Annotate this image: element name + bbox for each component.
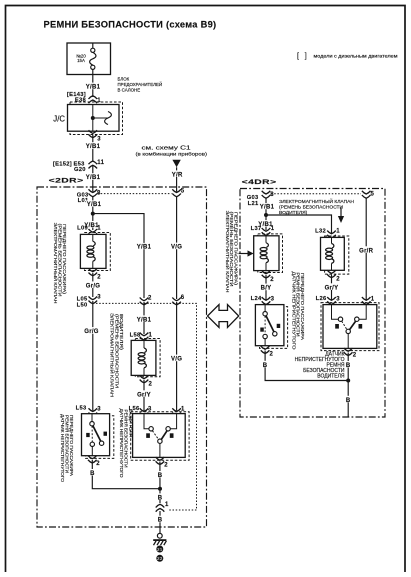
svg-text:L37: L37 <box>251 226 262 232</box>
svg-text:ПРЕДОХРАНИТЕЛЕЙ: ПРЕДОХРАНИТЕЛЕЙ <box>118 82 163 87</box>
svg-text:L58: L58 <box>130 332 141 338</box>
svg-text:3: 3 <box>97 137 101 143</box>
svg-text:V/G: V/G <box>171 245 182 251</box>
svg-text:2: 2 <box>336 276 340 282</box>
svg-text:1: 1 <box>149 332 153 338</box>
svg-text:ВОДИТЕЛЯ: ВОДИТЕЛЯ <box>317 373 345 379</box>
svg-text:РЕМНИ БЕЗОПАСНОСТИ (схема B9): РЕМНИ БЕЗОПАСНОСТИ (схема B9) <box>44 20 217 30</box>
svg-text:<2DR>: <2DR> <box>49 178 84 185</box>
svg-text:(в комбинации приборов): (в комбинации приборов) <box>136 151 208 157</box>
svg-text:B/Y: B/Y <box>261 286 272 292</box>
svg-text:15A: 15A <box>77 58 85 63</box>
connector G03 pin 5 (4DR) <box>362 191 371 198</box>
svg-text:[E152]: [E152] <box>53 161 72 167</box>
svg-text:Gr/G: Gr/G <box>86 283 101 289</box>
switch L26 pin 2 <box>344 348 353 355</box>
switch L24 pin 2 <box>261 346 270 353</box>
svg-text:B: B <box>158 495 163 501</box>
connector G03 pin 5 <box>172 189 181 196</box>
svg-text:РЕМНЯ БЕЗОПАСНОСТИ: РЕМНЯ БЕЗОПАСНОСТИ <box>124 410 129 468</box>
svg-text:ПЕРЕДНЕГО ПАССАЖИРА): ПЕРЕДНЕГО ПАССАЖИРА) <box>233 212 238 286</box>
svg-text:Y/B1: Y/B1 <box>86 175 101 181</box>
svg-text:3: 3 <box>97 406 101 412</box>
svg-text:2: 2 <box>97 275 101 281</box>
wire B L56 to ground node <box>159 462 161 504</box>
svg-text:ВОДИТЕЛЯ): ВОДИТЕЛЯ) <box>119 314 124 351</box>
svg-text:J/C: J/C <box>53 115 65 124</box>
wire Y/B1 G03 to node B <box>265 199 267 216</box>
L50 connector dashed outline <box>96 303 197 510</box>
G03 connector dashed link (4DR) <box>271 193 361 195</box>
svg-text:Gr/R: Gr/R <box>359 248 374 254</box>
4DR box <box>240 189 385 418</box>
wire B L53 to ground node <box>92 460 160 489</box>
svg-text:В САЛОНЕ: В САЛОНЕ <box>118 87 141 92</box>
svg-text:8: 8 <box>270 192 274 198</box>
svg-text:2: 2 <box>149 382 153 388</box>
svg-text:Y/B1: Y/B1 <box>137 317 152 323</box>
L56 label vertical text <box>119 409 133 479</box>
svg-text:БЛОК: БЛОК <box>118 77 130 82</box>
svg-text:Y/B1: Y/B1 <box>260 205 275 211</box>
svg-text:V/G: V/G <box>171 357 182 363</box>
switch L24 (passenger belt switch 4DR) <box>255 305 287 349</box>
wire Y/B1 J/C to E53 <box>92 135 94 162</box>
svg-text:(РЕМЕНЬ БЕЗОПАСНОСТИ: (РЕМЕНЬ БЕЗОПАСНОСТИ <box>58 224 63 297</box>
connector J/C pin 3 <box>89 130 98 137</box>
svg-text:3: 3 <box>97 294 101 300</box>
wire Y/B1 to L58 <box>143 302 145 334</box>
2DR/4DR equivalence double arrow <box>208 305 239 328</box>
fuse F20 box <box>67 43 111 75</box>
wire B/Y L37 to L24 <box>265 275 267 300</box>
svg-text:1: 1 <box>97 226 101 232</box>
L53 label vertical text <box>60 414 74 483</box>
node A junction <box>91 212 95 216</box>
wire B L26 to node C <box>347 353 349 381</box>
switch L53 (passenger belt switch) <box>82 414 114 459</box>
svg-text:L24: L24 <box>251 296 262 302</box>
svg-text:3: 3 <box>336 296 340 302</box>
wire Y/B1 fuse to E38 <box>92 75 94 98</box>
from C1 arrow <box>172 160 180 168</box>
svg-text:22: 22 <box>157 556 163 561</box>
switch L56 (driver belt switch) <box>131 412 189 461</box>
svg-text:B: B <box>158 473 163 479</box>
svg-text:5: 5 <box>181 189 185 195</box>
wire B L24 to node C <box>265 351 348 381</box>
svg-text:модели с дизельным двигателем: модели с дизельным двигателем <box>314 53 398 58</box>
svg-text:(РЕМЕНЬ БЕЗОПАСНОСТИ: (РЕМЕНЬ БЕЗОПАСНОСТИ <box>114 314 119 388</box>
svg-text:L21: L21 <box>248 201 259 207</box>
2DR box <box>37 187 207 527</box>
wire branch node A to middle column <box>93 214 144 298</box>
switch L56 pin 2 <box>156 457 165 464</box>
svg-text:3: 3 <box>271 296 275 302</box>
svg-text:ЭЛЕКТРОМАГНИТНЫЙ КЛАПАН: ЭЛЕКТРОМАГНИТНЫЙ КЛАПАН <box>53 223 58 304</box>
svg-text:<4DR>: <4DR> <box>242 179 277 186</box>
svg-text:(РЕМЕНЬ БЕЗОПАСНОСТИ: (РЕМЕНЬ БЕЗОПАСНОСТИ <box>279 204 344 210</box>
L26 label text block <box>295 351 345 379</box>
note arrow to L32 <box>338 208 344 224</box>
switch L53 pin 2 <box>88 456 97 463</box>
valve L37 (passenger belt solenoid 4DR) <box>254 234 283 273</box>
svg-text:Gr/G: Gr/G <box>84 329 99 335</box>
body ground 21/22 <box>153 533 166 545</box>
svg-text:B: B <box>346 398 351 404</box>
connector L05 pin 3 <box>89 296 98 303</box>
valve L09 pin 2 <box>89 268 98 275</box>
svg-text:L32: L32 <box>315 229 326 235</box>
svg-text:Y/R: Y/R <box>172 172 183 178</box>
svg-text:11: 11 <box>97 160 104 166</box>
valve L58 pin 2 <box>140 375 149 382</box>
svg-text:6: 6 <box>181 295 185 301</box>
valve L32 (driver belt solenoid 4DR) <box>321 236 349 274</box>
svg-text:РЕМНЯ БЕЗОПАСНОСТИ: РЕМНЯ БЕЗОПАСНОСТИ <box>65 415 70 473</box>
valve L58 (driver belt solenoid) <box>131 339 160 377</box>
svg-text:ДАТЧИК НЕПРИСТЕГНУТОГО: ДАТЧИК НЕПРИСТЕГНУТОГО <box>60 414 65 483</box>
wire Y/R <box>176 167 178 191</box>
connector L50 pin 6 <box>172 298 181 305</box>
wire Y/B1 G03 to node A <box>92 197 94 214</box>
valve L09 (passenger belt solenoid) <box>80 233 110 271</box>
svg-text:ВОДИТЕЛЯ: ВОДИТЕЛЯ <box>128 410 133 438</box>
L09 label vertical text <box>53 223 67 304</box>
svg-text:ПЕРЕДНЕГО ПАССАЖИРА: ПЕРЕДНЕГО ПАССАЖИРА <box>69 415 74 476</box>
svg-text:E38: E38 <box>75 98 87 104</box>
wire Gr/G L09 to L05 <box>92 273 94 297</box>
svg-text:1: 1 <box>336 229 340 235</box>
svg-text:B: B <box>346 363 351 369</box>
svg-text:21: 21 <box>157 547 163 552</box>
svg-text:L26: L26 <box>316 296 327 302</box>
svg-text:Y/B1: Y/B1 <box>137 245 152 251</box>
wire Y/B1 branch label <box>135 243 153 249</box>
svg-text:2: 2 <box>270 277 274 283</box>
svg-text:G20: G20 <box>74 167 86 173</box>
wire Y/B1 E53 to G03 <box>92 166 94 192</box>
wire Gr/G L05 to L53 <box>92 301 94 411</box>
G03 connector dashed link <box>98 193 172 195</box>
svg-text:Y/B1: Y/B1 <box>86 85 101 91</box>
svg-text:1: 1 <box>97 98 101 104</box>
wire Y/B1 node B to L37 <box>265 215 267 230</box>
svg-text:ПЕРЕДНЕГО ПАССАЖИРА: ПЕРЕДНЕГО ПАССАЖИРА <box>300 273 305 340</box>
svg-text:2: 2 <box>96 461 100 467</box>
wire B to body ground <box>159 511 161 533</box>
svg-text:1: 1 <box>371 296 375 302</box>
wire Gr/Y L58 to L56 <box>143 380 145 411</box>
svg-text:см. схему C1: см. схему C1 <box>142 145 191 151</box>
svg-text:2: 2 <box>353 352 357 358</box>
ground node junction <box>158 487 162 491</box>
svg-text:B: B <box>263 363 268 369</box>
svg-text:ПЕРЕДНЕГО ПАССАЖИРА): ПЕРЕДНЕГО ПАССАЖИРА) <box>62 224 67 295</box>
switch L26 (driver belt switch 4DR) <box>321 303 379 351</box>
junction connector J/C <box>68 102 123 135</box>
svg-text:ДАТЧИК НЕПРИСТЕГНУТОГО: ДАТЧИК НЕПРИСТЕГНУТОГО <box>119 409 124 479</box>
svg-text:ЭЛЕКТРОМАГНИТНЫЙ КЛАПАН: ЭЛЕКТРОМАГНИТНЫЙ КЛАПАН <box>110 313 115 397</box>
wire Gr/R G03 to L26 <box>365 199 367 301</box>
middle label vertical text (passenger solenoid) <box>225 211 238 293</box>
svg-text:2: 2 <box>148 295 152 301</box>
svg-text:[ ]: [ ] <box>297 53 307 60</box>
node B junction <box>264 213 268 217</box>
svg-text:1: 1 <box>165 502 169 508</box>
svg-text:Gr/Y: Gr/Y <box>137 392 151 398</box>
svg-text:1: 1 <box>271 226 275 232</box>
valve L32 pin 2 <box>327 270 336 277</box>
svg-text:2: 2 <box>164 463 168 469</box>
fuse F20 element <box>92 43 94 48</box>
svg-text:L53: L53 <box>76 406 87 412</box>
L58 label vertical text <box>110 313 124 397</box>
connector L50 pin 1 <box>156 504 165 511</box>
svg-text:5: 5 <box>371 192 375 198</box>
svg-text:Gr/Y: Gr/Y <box>325 285 339 291</box>
wire B node C to box edge <box>347 381 349 418</box>
svg-text:2: 2 <box>270 352 274 358</box>
wire Gr/Y L32 to L26 <box>331 275 333 300</box>
L24 label vertical text <box>292 272 305 351</box>
connector L50 pin 2 <box>140 298 149 305</box>
svg-text:L50: L50 <box>77 302 88 308</box>
svg-text:B: B <box>158 518 163 524</box>
wire Y/B1 node A to L09 <box>92 214 94 230</box>
pointer arrow to L37 <box>239 250 254 256</box>
node C junction <box>346 379 350 383</box>
svg-text:B: B <box>90 471 95 477</box>
wire branch node B to L32 <box>266 215 332 233</box>
svg-text:L09: L09 <box>77 226 88 232</box>
svg-text:Y/B1: Y/B1 <box>86 144 101 150</box>
wire V/G G03 to L50 <box>176 197 178 299</box>
valve L37 pin 2 <box>262 271 271 278</box>
svg-text:Y/B1: Y/B1 <box>87 202 102 208</box>
wire V/G L50 to L56 <box>176 302 178 411</box>
